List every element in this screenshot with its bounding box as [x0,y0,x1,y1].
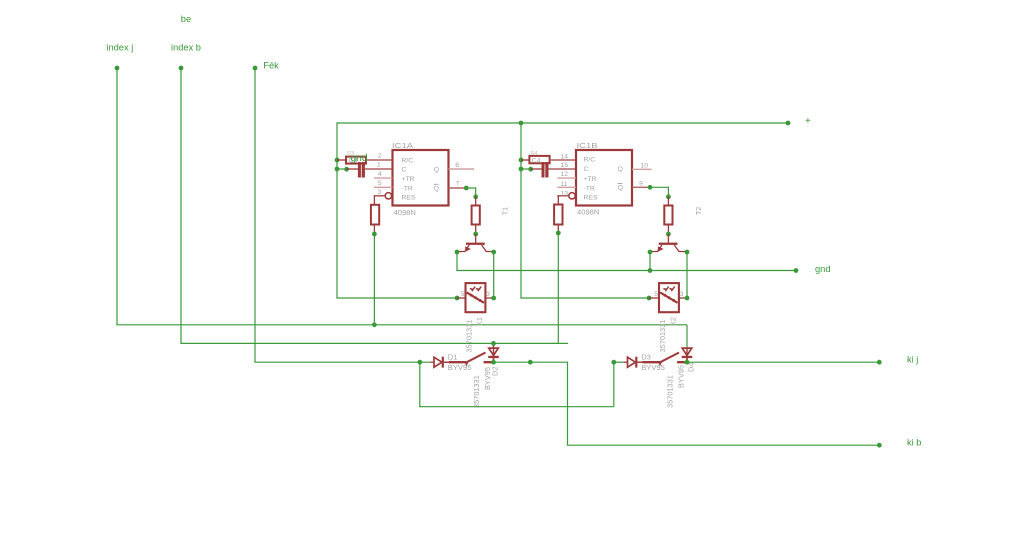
wire R4 to T1 base [473,232,478,243]
svg-text:C: C [402,166,407,173]
resistor R2 [371,196,379,234]
pin 6 stub [449,162,475,169]
label gnd (on R1) [351,153,368,164]
wire R7 to T2 base [666,232,671,243]
svg-text:K2: K2 [668,317,677,326]
svg-text:T1: T1 [503,207,510,215]
svg-text:7: 7 [456,181,460,188]
svg-text:RES: RES [584,195,598,202]
svg-text:5: 5 [461,291,465,298]
svg-text:35701331: 35701331 [658,320,667,353]
pin 12 stub [557,171,576,178]
pin 2 label [378,153,382,160]
relay coil K1 [455,283,497,312]
svg-text:K1: K1 [475,317,484,326]
label K1 pin 5 [461,291,465,298]
svg-text:14: 14 [560,154,568,161]
svg-text:IC1A: IC1A [392,141,414,150]
label T2 [696,207,703,215]
node ki j (net label) [907,355,918,365]
relay coil K2 [647,283,690,312]
label C4 [531,151,541,164]
svg-text:9: 9 [639,181,643,188]
relay contact K1 [449,353,492,367]
svg-text:D3: D3 [641,353,651,362]
pin 9 stub [632,181,650,188]
label K1 35701331 upper [465,320,474,353]
op-amp IC1B (4098 monostable) [576,150,632,206]
svg-text:Q: Q [618,166,623,173]
transistor T1 [457,243,494,252]
wire gnd rail [456,252,798,273]
svg-text:BYV95: BYV95 [448,363,472,372]
wire T2 collector to K2 [685,250,690,298]
svg-text:R/C: R/C [402,157,414,164]
label K1 pin 3 [486,291,490,298]
wire + rail [337,121,790,126]
resistor R4 [472,197,480,234]
node index j (net label) [106,43,133,53]
svg-text:3: 3 [486,291,490,298]
svg-text:+TR: +TR [584,176,597,183]
svg-text:10: 10 [641,162,649,169]
svg-text:index j: index j [106,43,133,53]
svg-text:BYV95: BYV95 [677,365,686,388]
relay contact K2 [643,353,686,367]
label K2 35701331 upper [658,320,667,353]
label IC1A [392,141,414,150]
wire loop Fék to D3 [419,360,616,407]
label D3 [641,353,651,362]
node A3 (D2 top junction) [491,341,496,346]
pin 10 stub [632,162,652,169]
label K2 pin 5 [654,291,658,298]
svg-text:3: 3 [680,291,684,298]
label K1 [475,317,484,326]
diode D3 [624,357,646,368]
node Fék (net label) [263,60,279,70]
label D1 BYV95 [448,363,472,372]
pin 13 RES bubble [557,191,575,199]
wire index b vertical [179,66,184,344]
wire T1 collector to K1 [491,250,496,298]
resistor R5 [521,156,576,163]
node index b (net label) [171,43,201,53]
wire T2 emitter [648,250,653,271]
label T1 [503,207,510,215]
node + (supply label) [805,116,811,127]
wire C2 feed [521,168,531,170]
wire index j to D4 [686,325,688,348]
pin 14 label [560,154,568,161]
svg-text:35701331: 35701331 [665,375,674,408]
svg-text:ki b: ki b [907,438,921,448]
diode D4 [682,348,693,363]
wire index b horizontal [180,342,568,344]
wire contact K2 to ki j [685,360,882,365]
wire Fék horizontal [254,361,430,363]
node ki b (net label) [907,438,921,448]
wire R6 to index b [556,231,561,344]
label D2 [491,367,500,376]
svg-text:13: 13 [560,191,568,198]
diode D2 [488,343,499,362]
svg-text:35701331: 35701331 [472,375,481,408]
svg-text:C4: C4 [532,157,541,164]
svg-text:T2: T2 [696,207,703,215]
svg-text:Q: Q [434,166,439,173]
diode D1 [430,357,452,368]
wire contact K1 to ki b [491,360,882,448]
svg-text:15: 15 [560,162,568,169]
pin names IC1A [402,157,440,201]
svg-text:be: be [181,14,191,24]
node gnd (net label) [815,264,831,274]
label C3 [347,151,357,164]
wire R2 to index j [372,232,377,325]
svg-text:IC1B: IC1B [577,141,598,150]
label K2 35701331 lower [665,375,674,408]
node be (net label) [181,14,191,24]
label K2 pin 3 [680,291,684,298]
pin names IC1B [584,157,623,202]
svg-text:Fék: Fék [263,60,279,70]
pin 1 label [377,162,381,169]
pin 4 stub [374,171,393,178]
wire index j vertical [115,66,120,325]
svg-text:5: 5 [654,291,658,298]
svg-text:C: C [584,166,589,173]
label 4098N A [394,208,416,217]
label K1 35701331 lower [472,375,481,408]
resistor R1 [337,157,393,164]
pin 7 stub [449,181,467,188]
label K2 [668,317,677,326]
svg-text:D2: D2 [491,367,500,376]
label D2 BYV95 [483,367,492,390]
svg-text:D1: D1 [448,353,458,362]
op-amp IC1A (4098 monostable) [393,150,449,206]
svg-text:Q: Q [434,185,439,192]
wire + to K2 coil [520,122,649,298]
svg-text:ki j: ki j [907,355,918,365]
svg-text:index b: index b [171,43,201,53]
pin 11 stub [557,181,576,188]
resistor R6 [554,196,562,233]
resistor R7 [664,197,672,234]
label D4 BYV95 [677,365,686,388]
svg-text:BYV95: BYV95 [641,363,665,372]
wire + to K1 coil [336,122,457,298]
svg-text:12: 12 [560,171,568,178]
pin 15 label [560,162,568,169]
node A2 (Fék/loop junction) [417,360,422,365]
svg-text:gnd: gnd [815,264,831,274]
pin 5 stub [374,180,393,187]
svg-text:11: 11 [560,181,567,188]
capacitor C1 [347,162,393,178]
label D4 [687,363,696,372]
pin 3 RES bubble [374,189,392,199]
svg-text:6: 6 [455,162,459,169]
label IC1B [577,141,598,150]
svg-text:-TR: -TR [402,185,413,192]
capacitor C2 [531,162,576,178]
node A1 (RC taps IC1A) [335,158,349,172]
wire Q1bar [464,186,478,200]
wire Q2bar [648,185,671,199]
svg-text:R/C: R/C [584,157,596,164]
wire to D3 [614,361,624,363]
svg-text:+TR: +TR [402,176,415,183]
wire Fék vertical [253,66,258,363]
svg-text:3: 3 [377,189,381,196]
svg-text:5: 5 [378,180,382,187]
svg-text:R4: R4 [531,151,538,157]
svg-text:gnd: gnd [351,153,368,164]
svg-text:4098N: 4098N [394,208,416,217]
svg-text:1: 1 [377,162,381,169]
wire T1 emitter [455,250,460,255]
node B1 (RC taps IC1B) [519,158,534,172]
transistor T2 [650,243,687,252]
wire index j horizontal [116,322,687,327]
svg-text:35701331: 35701331 [465,320,474,353]
svg-text:4: 4 [378,171,382,178]
svg-text:-TR: -TR [584,185,595,192]
svg-text:2: 2 [378,153,382,160]
svg-text:Q: Q [618,185,623,192]
svg-text:4098N: 4098N [577,208,599,217]
label D3 BYV95 [641,363,665,372]
wire C1 feed [337,168,347,170]
label 4098N B [577,208,599,217]
svg-text:RES: RES [402,195,416,202]
svg-text:+: + [805,116,811,127]
label D1 [448,353,458,362]
